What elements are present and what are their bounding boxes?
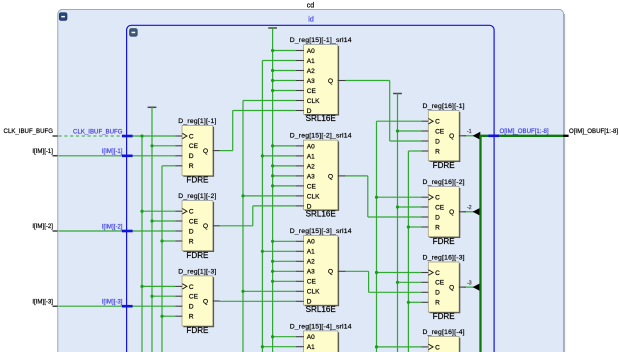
svg-text:SRL16E: SRL16E: [306, 210, 337, 219]
svg-text:FDRE: FDRE: [433, 237, 456, 246]
svg-text:CE: CE: [307, 88, 317, 95]
svg-text:A1: A1: [307, 249, 315, 256]
svg-text:R: R: [189, 163, 194, 170]
svg-text:D_reg[16][-2]: D_reg[16][-2]: [423, 179, 465, 186]
svg-text:Q: Q: [449, 209, 454, 216]
svg-text:R: R: [189, 314, 194, 321]
svg-text:A1: A1: [307, 153, 315, 160]
svg-text:C: C: [189, 284, 194, 291]
svg-text:A3: A3: [307, 269, 315, 276]
svg-text:C: C: [435, 344, 440, 351]
svg-text:CE: CE: [189, 218, 199, 225]
svg-text:O[IM]_OBUF[1:-8]: O[IM]_OBUF[1:-8]: [500, 128, 549, 135]
svg-text:I[IM][-2]: I[IM][-2]: [102, 223, 123, 230]
svg-text:D_reg[1][-3]: D_reg[1][-3]: [178, 268, 216, 275]
svg-text:-1: -1: [467, 129, 472, 135]
svg-text:-3: -3: [467, 281, 472, 287]
svg-text:A1: A1: [307, 344, 315, 351]
svg-text:CLK_IBUF_BUFG: CLK_IBUF_BUFG: [73, 128, 123, 135]
svg-text:Q: Q: [449, 133, 454, 140]
svg-text:C: C: [435, 119, 440, 126]
svg-text:D: D: [435, 290, 440, 297]
svg-text:A3: A3: [307, 78, 315, 85]
svg-text:D_reg[15][-4]_srl14: D_reg[15][-4]_srl14: [290, 323, 352, 330]
svg-text:O[IM]_OBUF[1:-8]: O[IM]_OBUF[1:-8]: [569, 128, 618, 135]
svg-text:D: D: [189, 304, 194, 311]
svg-text:R: R: [435, 224, 440, 231]
svg-text:CE: CE: [307, 183, 317, 190]
svg-text:I[IM][-1]: I[IM][-1]: [102, 148, 123, 155]
svg-text:CLK: CLK: [307, 289, 320, 296]
svg-text:Q: Q: [203, 223, 208, 230]
svg-text:A0: A0: [307, 143, 315, 150]
svg-text:D_reg[16][-1]: D_reg[16][-1]: [423, 103, 465, 110]
svg-text:D: D: [189, 228, 194, 235]
svg-text:D: D: [435, 138, 440, 145]
svg-text:I[IM][-3]: I[IM][-3]: [102, 299, 123, 306]
svg-text:I[IM][-3]: I[IM][-3]: [32, 298, 53, 305]
svg-text:CE: CE: [307, 279, 317, 286]
svg-text:D: D: [189, 153, 194, 160]
svg-text:A0: A0: [307, 48, 315, 55]
svg-text:FDRE: FDRE: [186, 251, 209, 260]
svg-text:Q: Q: [449, 285, 454, 292]
svg-text:I[IM][-2]: I[IM][-2]: [32, 223, 53, 230]
svg-text:CLK: CLK: [307, 193, 320, 200]
svg-text:CE: CE: [435, 280, 445, 287]
svg-text:R: R: [435, 148, 440, 155]
svg-text:D_reg[15][-3]_srl14: D_reg[15][-3]_srl14: [290, 228, 352, 235]
svg-text:C: C: [189, 133, 194, 140]
svg-text:-2: -2: [467, 205, 472, 211]
svg-text:D: D: [435, 214, 440, 221]
svg-text:D_reg[1][-2]: D_reg[1][-2]: [178, 193, 216, 200]
svg-text:A2: A2: [307, 259, 315, 266]
svg-text:C: C: [435, 195, 440, 202]
svg-text:Q: Q: [203, 148, 208, 155]
svg-text:A1: A1: [307, 58, 315, 65]
svg-text:R: R: [435, 300, 440, 307]
svg-text:A3: A3: [307, 173, 315, 180]
svg-text:CLK_IBUF_BUFG: CLK_IBUF_BUFG: [4, 128, 54, 135]
svg-text:D_reg[15][-1]_srl14: D_reg[15][-1]_srl14: [290, 37, 352, 44]
svg-text:CE: CE: [189, 143, 199, 150]
svg-text:A0: A0: [307, 239, 315, 246]
svg-text:Q: Q: [203, 298, 208, 305]
svg-text:A2: A2: [307, 68, 315, 75]
svg-text:CLK: CLK: [307, 98, 320, 105]
svg-text:FDRE: FDRE: [186, 176, 209, 185]
svg-text:C: C: [189, 209, 194, 216]
svg-text:CE: CE: [435, 128, 445, 135]
svg-text:I[IM][-1]: I[IM][-1]: [32, 148, 53, 155]
svg-text:D_reg[15][-2]_srl14: D_reg[15][-2]_srl14: [290, 133, 352, 140]
svg-text:A2: A2: [307, 163, 315, 170]
svg-text:Q: Q: [328, 173, 333, 180]
svg-text:id: id: [308, 17, 314, 24]
svg-text:D_reg[16][-4]: D_reg[16][-4]: [423, 329, 465, 336]
svg-text:CE: CE: [435, 204, 445, 211]
svg-text:SRL16E: SRL16E: [306, 114, 337, 123]
svg-text:cd: cd: [307, 2, 315, 9]
svg-text:Q: Q: [328, 269, 333, 276]
svg-text:CE: CE: [189, 294, 199, 301]
svg-text:A0: A0: [307, 334, 315, 341]
svg-text:Q: Q: [328, 78, 333, 85]
svg-text:D_reg[16][-3]: D_reg[16][-3]: [423, 255, 465, 262]
svg-text:SRL16E: SRL16E: [306, 305, 337, 314]
svg-text:C: C: [435, 270, 440, 277]
svg-text:FDRE: FDRE: [186, 326, 209, 335]
svg-text:D_reg[1][-1]: D_reg[1][-1]: [178, 118, 216, 125]
svg-text:FDRE: FDRE: [433, 312, 456, 321]
svg-text:FDRE: FDRE: [433, 161, 456, 170]
svg-text:R: R: [189, 238, 194, 245]
